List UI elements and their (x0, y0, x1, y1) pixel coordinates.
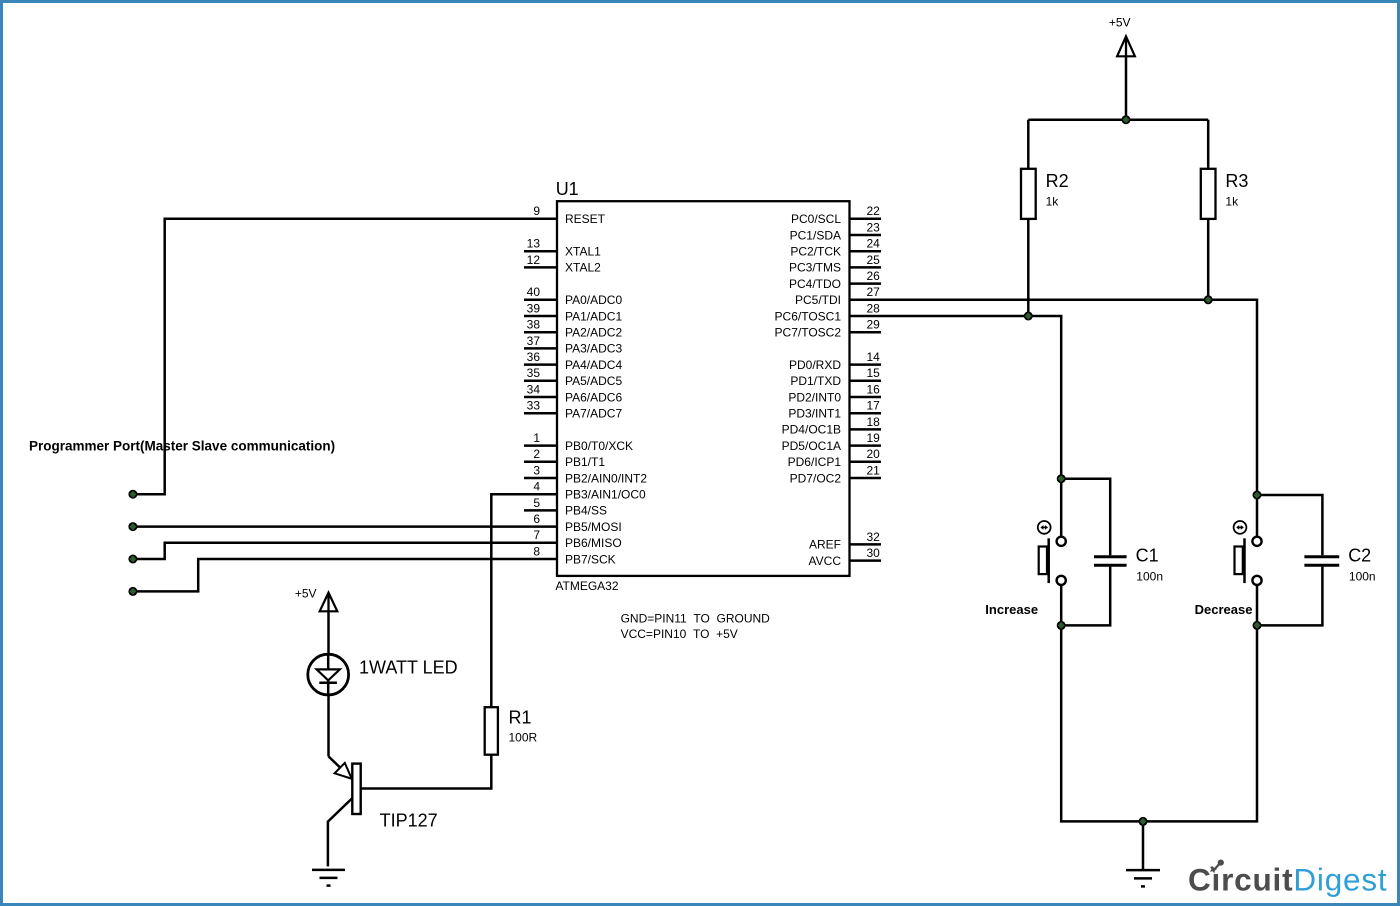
svg-text:Decrease: Decrease (1195, 602, 1253, 617)
svg-text:3: 3 (533, 463, 540, 477)
svg-text:18: 18 (867, 415, 881, 429)
svg-text:PA2/ADC2: PA2/ADC2 (565, 326, 622, 340)
svg-text:PD1/TXD: PD1/TXD (790, 374, 841, 388)
svg-text:1k: 1k (1046, 194, 1060, 208)
svg-text:VCC=PIN10 TO +5V: VCC=PIN10 TO +5V (621, 627, 738, 641)
svg-text:XTAL1: XTAL1 (565, 245, 601, 259)
svg-text:R2: R2 (1046, 171, 1069, 191)
svg-text:AVCC: AVCC (809, 554, 842, 568)
svg-text:8: 8 (533, 544, 540, 558)
svg-text:24: 24 (867, 237, 881, 251)
svg-text:GND=PIN11 TO GROUND: GND=PIN11 TO GROUND (621, 612, 771, 626)
svg-text:29: 29 (867, 318, 881, 332)
svg-text:23: 23 (867, 220, 881, 234)
svg-text:39: 39 (527, 301, 541, 315)
svg-text:21: 21 (867, 463, 881, 477)
svg-text:36: 36 (527, 350, 541, 364)
svg-text:22: 22 (867, 204, 881, 218)
svg-text:PC7/TOSC2: PC7/TOSC2 (775, 326, 842, 340)
svg-text:33: 33 (527, 399, 541, 413)
svg-text:U1: U1 (556, 179, 579, 199)
svg-text:20: 20 (867, 447, 881, 461)
svg-text:ATMEGA32: ATMEGA32 (555, 579, 618, 593)
svg-text:34: 34 (527, 382, 541, 396)
svg-text:38: 38 (527, 318, 541, 332)
svg-text:XTAL2: XTAL2 (565, 261, 601, 275)
svg-text:27: 27 (867, 285, 881, 299)
svg-text:100n: 100n (1136, 569, 1163, 583)
svg-text:PB3/AIN1/OC0: PB3/AIN1/OC0 (565, 488, 646, 502)
svg-text:AREF: AREF (809, 538, 841, 552)
svg-text:13: 13 (527, 237, 541, 251)
svg-text:PC2/TCK: PC2/TCK (790, 245, 841, 259)
svg-text:PD4/OC1B: PD4/OC1B (782, 423, 841, 437)
svg-text:PA1/ADC1: PA1/ADC1 (565, 309, 622, 323)
svg-text:40: 40 (527, 285, 541, 299)
svg-text:19: 19 (867, 431, 881, 445)
svg-text:PC3/TMS: PC3/TMS (789, 261, 841, 275)
svg-text:PB6/MISO: PB6/MISO (565, 536, 622, 550)
svg-text:PA6/ADC6: PA6/ADC6 (565, 390, 622, 404)
svg-text:PB0/T0/XCK: PB0/T0/XCK (565, 439, 633, 453)
svg-text:+5V: +5V (1109, 16, 1131, 30)
svg-text:PC5/TDI: PC5/TDI (795, 293, 841, 307)
svg-text:PA3/ADC3: PA3/ADC3 (565, 342, 622, 356)
svg-text:26: 26 (867, 269, 881, 283)
svg-text:PD6/ICP1: PD6/ICP1 (788, 455, 842, 469)
svg-text:16: 16 (867, 382, 881, 396)
svg-text:PC1/SDA: PC1/SDA (790, 228, 841, 242)
svg-text:PD0/RXD: PD0/RXD (789, 358, 841, 372)
svg-text:PD2/INT0: PD2/INT0 (788, 390, 841, 404)
svg-text:5: 5 (533, 496, 540, 510)
svg-text:PB7/SCK: PB7/SCK (565, 552, 616, 566)
svg-text:PB2/AIN0/INT2: PB2/AIN0/INT2 (565, 471, 647, 485)
svg-text:R3: R3 (1225, 171, 1248, 191)
svg-text:28: 28 (867, 301, 881, 315)
svg-text:+5V: +5V (295, 586, 317, 600)
svg-text:C2: C2 (1348, 545, 1371, 565)
svg-text:1k: 1k (1225, 194, 1239, 208)
svg-text:32: 32 (867, 530, 881, 544)
svg-text:14: 14 (867, 350, 881, 364)
svg-text:12: 12 (527, 253, 541, 267)
svg-text:PB1/T1: PB1/T1 (565, 455, 605, 469)
svg-text:25: 25 (867, 253, 881, 267)
svg-text:PA7/ADC7: PA7/ADC7 (565, 407, 622, 421)
svg-text:PA0/ADC0: PA0/ADC0 (565, 293, 622, 307)
svg-text:4: 4 (533, 480, 540, 494)
svg-text:PB5/MOSI: PB5/MOSI (565, 520, 622, 534)
svg-text:15: 15 (867, 366, 881, 380)
svg-text:PC0/SCL: PC0/SCL (791, 212, 841, 226)
svg-text:R1: R1 (509, 707, 532, 727)
svg-text:RESET: RESET (565, 212, 606, 226)
svg-text:100n: 100n (1349, 569, 1376, 583)
svg-text:100R: 100R (509, 731, 538, 745)
svg-text:17: 17 (867, 399, 881, 413)
svg-text:9: 9 (533, 204, 540, 218)
svg-text:PB4/SS: PB4/SS (565, 504, 607, 518)
svg-text:TIP127: TIP127 (380, 810, 438, 830)
svg-text:PD7/OC2: PD7/OC2 (790, 471, 842, 485)
svg-text:C1: C1 (1136, 545, 1159, 565)
svg-text:6: 6 (533, 512, 540, 526)
svg-text:35: 35 (527, 366, 541, 380)
svg-text:Programmer Port(Master Slave c: Programmer Port(Master Slave communicati… (29, 438, 335, 453)
svg-text:1: 1 (533, 431, 540, 445)
svg-text:37: 37 (527, 334, 541, 348)
svg-text:PD5/OC1A: PD5/OC1A (782, 439, 841, 453)
svg-text:PD3/INT1: PD3/INT1 (788, 407, 841, 421)
svg-text:Increase: Increase (985, 602, 1038, 617)
svg-text:2: 2 (533, 447, 540, 461)
svg-text:PC4/TDO: PC4/TDO (789, 277, 841, 291)
svg-text:30: 30 (867, 546, 881, 560)
svg-text:1WATT LED: 1WATT LED (359, 657, 458, 677)
svg-text:PA5/ADC5: PA5/ADC5 (565, 374, 622, 388)
svg-text:PA4/ADC4: PA4/ADC4 (565, 358, 622, 372)
svg-text:PC6/TOSC1: PC6/TOSC1 (775, 309, 842, 323)
svg-text:7: 7 (533, 528, 540, 542)
